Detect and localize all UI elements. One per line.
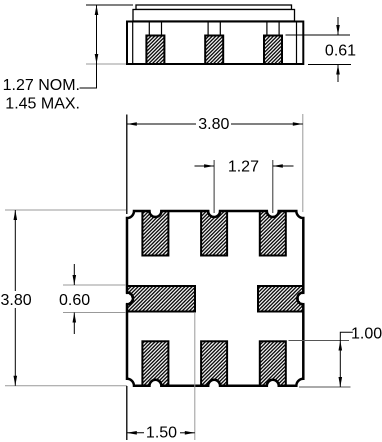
white clearance discs for castellation notches: [123, 206, 308, 391]
arrow up at lid top: [95, 5, 99, 15]
dimension 0.61 : extension line bottom: [308, 64, 351, 66]
dimension 1.27 top : left extension line: [213, 160, 215, 213]
dimension 3.80 top : dimension line: [127, 123, 196, 125]
pad 6 (bottom-right, hatched): [260, 341, 286, 386]
dimension 1.50 : dimension line: [127, 432, 144, 434]
svg-text:1.50: 1.50: [146, 424, 177, 441]
svg-text:0.60: 0.60: [59, 292, 90, 309]
arrow right: [185, 431, 195, 435]
dimension 1.27 : right arrow + tail: [273, 165, 294, 167]
dimension 0.60 : bottom extension line (gray): [63, 312, 126, 314]
dimension 1.50 : left extension line: [126, 386, 128, 440]
dimension 1.00 : bottom extension line: [299, 386, 351, 388]
dimension 0.61 : extension line top: [286, 34, 351, 36]
pad 1 (top-left, hatched): [142, 211, 168, 256]
pad C (side view, hatched): [264, 36, 282, 65]
dimension 1.50 : right extension line (gray): [194, 313, 196, 440]
dimension 1.27 NOM / 1.45 MAX : extension line top: [86, 4, 133, 6]
dimension 0.61 : top arrow: [337, 17, 339, 35]
pad B neck lines: [207, 22, 209, 36]
dimension 1.00 : leader to label: [340, 332, 353, 341]
lid lower plate: [133, 10, 295, 22]
dimension 3.80 left : top extension line (gray): [5, 209, 126, 211]
svg-text:1.27: 1.27: [228, 158, 259, 175]
middle bar left (hatched): [127, 286, 195, 312]
dimension 1.27 top : right extension line: [272, 160, 274, 213]
pad A neck lines: [148, 22, 150, 36]
arrow right: [293, 122, 303, 126]
arrow down at body bottom: [95, 54, 99, 64]
svg-text:3.80: 3.80: [1, 292, 32, 309]
dimension 3.80 left : bottom extension line (gray): [5, 385, 127, 387]
arrow left: [127, 122, 137, 126]
dimension 3.80 top : right extension line (gray): [302, 114, 304, 212]
dimension 1.27 NOM : dimension line + leader: [80, 5, 97, 88]
arrow left: [127, 431, 137, 435]
pad B (side view, hatched): [205, 36, 223, 65]
svg-text:0.61: 0.61: [325, 43, 356, 60]
svg-text:1.45 MAX.: 1.45 MAX.: [5, 96, 80, 113]
dimension 1.00 : top extension line: [289, 340, 350, 342]
dimension 1.00 : dimension line with arrows: [339, 341, 341, 388]
svg-text:1.00: 1.00: [351, 325, 382, 342]
right castellation wall: [296, 22, 298, 65]
svg-text:1.27 NOM.: 1.27 NOM.: [3, 77, 80, 94]
dimension 3.80 top : left extension line: [126, 115, 128, 215]
pad A (side view, hatched): [146, 36, 164, 65]
lid top plate: [136, 5, 292, 10]
dimension 1.27 : left arrow + tail: [195, 165, 215, 167]
package outline with corner + edge castellation notches: [127, 211, 303, 386]
pad C neck lines: [266, 22, 268, 36]
middle bar right (hatched): [258, 286, 303, 312]
svg-text:3.80: 3.80: [198, 116, 229, 133]
left castellation wall: [132, 22, 134, 65]
dimension 0.60 : top extension line (gray): [63, 284, 126, 286]
dimension 0.61 : bottom arrow: [337, 65, 339, 83]
dimension 3.80 left : dimension line: [14, 210, 16, 291]
pad 4 (bottom-left, hatched): [142, 341, 168, 386]
dimension 1.27 NOM : extension line bottom (gray): [86, 63, 126, 65]
dimension 0.60 : top arrow: [73, 264, 75, 285]
pad 3 (top-right, hatched): [260, 211, 286, 256]
pad 2 (top-center, hatched): [201, 211, 227, 256]
body (side view): [127, 22, 303, 65]
dimension 0.60 : bottom arrow: [73, 313, 75, 335]
pad 5 (bottom-center, hatched): [201, 341, 227, 386]
arrow down: [14, 376, 18, 386]
arrow up: [14, 210, 18, 220]
